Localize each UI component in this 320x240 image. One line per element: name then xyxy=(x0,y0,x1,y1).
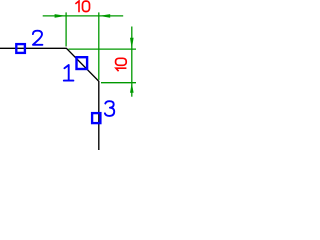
grip square 3 xyxy=(92,113,100,123)
dimension vertical: top arrow xyxy=(130,38,134,49)
label 1 xyxy=(64,65,74,81)
dimension horizontal: left extension line xyxy=(65,12,67,46)
dimension vertical: top extension line xyxy=(68,48,136,50)
dimension horizontal: text 10 digit 1 xyxy=(75,1,79,12)
polyline chamfered corner xyxy=(0,48,99,150)
dimension horizontal: text 10 digit 0 xyxy=(83,1,90,11)
dimension vertical: bottom extension line xyxy=(101,82,136,84)
dimension vertical: text 10 digit 1 rotated xyxy=(116,68,127,71)
dimension vertical: text 10 digit 0 rotated xyxy=(116,58,127,65)
dimension horizontal: right arrow xyxy=(99,14,110,18)
dimension horizontal: left arrow xyxy=(55,14,67,18)
dimension vertical: dim line xyxy=(131,27,133,97)
grip square 2 xyxy=(16,44,25,53)
label 2 xyxy=(33,31,43,45)
dimension horizontal: dim line xyxy=(43,15,124,17)
dimension vertical: bottom arrow xyxy=(130,83,134,93)
grip square 1 xyxy=(77,57,88,69)
dimension horizontal: right extension line xyxy=(98,12,100,80)
label 3 xyxy=(105,101,114,116)
